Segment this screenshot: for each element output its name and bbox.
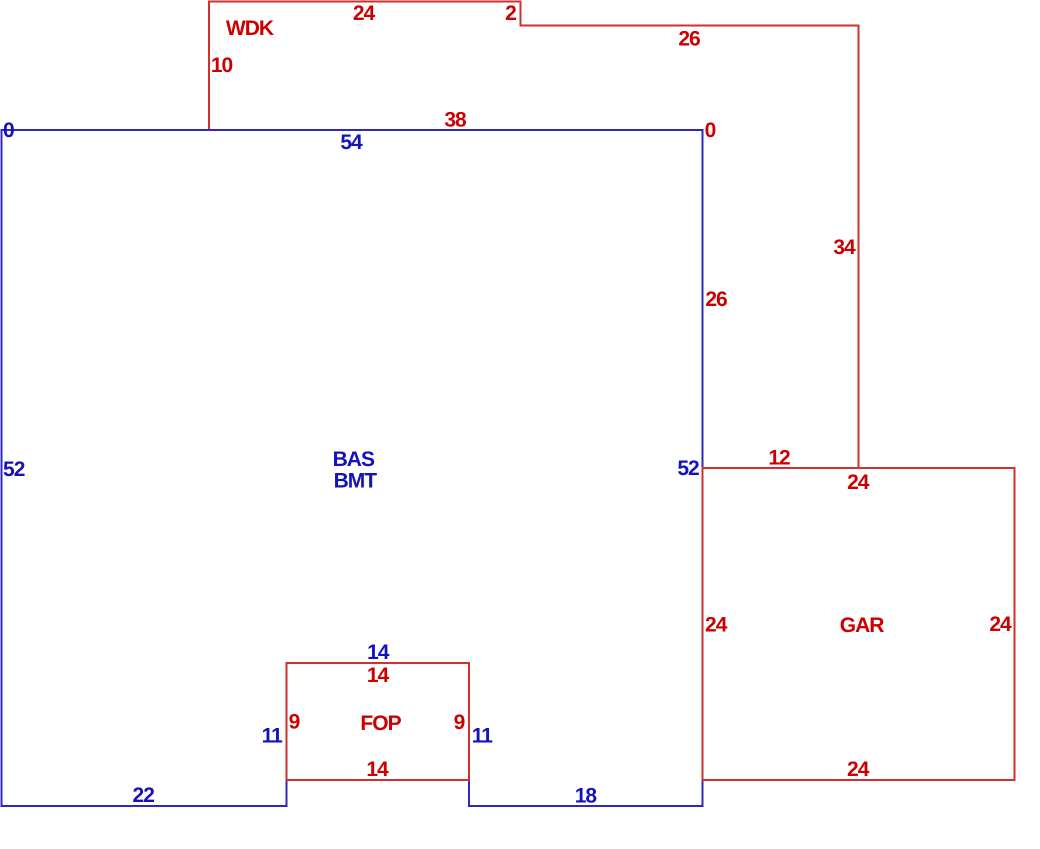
svg-text:52: 52 [677, 457, 699, 480]
svg-text:26: 26 [705, 288, 727, 311]
svg-text:BMT: BMT [334, 470, 378, 493]
svg-text:24: 24 [705, 613, 728, 636]
svg-text:9: 9 [454, 711, 466, 734]
svg-text:34: 34 [833, 236, 856, 259]
svg-text:24: 24 [847, 758, 870, 781]
area GAR rectangle outline (garage, red) [703, 468, 1015, 780]
area FOP rectangle outline (open porch, red) [287, 663, 470, 780]
svg-text:18: 18 [575, 785, 598, 808]
svg-text:11: 11 [262, 724, 284, 747]
svg-text:14: 14 [366, 758, 389, 781]
svg-text:24: 24 [847, 471, 870, 494]
svg-text:10: 10 [211, 54, 233, 77]
area BAS/BMT polygon outline (main dwelling, blue) [2, 130, 703, 806]
svg-text:14: 14 [367, 641, 390, 664]
area WDK polygon outline (wood deck, red) [209, 2, 859, 469]
svg-text:54: 54 [340, 131, 363, 154]
svg-text:9: 9 [289, 711, 301, 734]
svg-text:14: 14 [367, 664, 390, 687]
svg-text:12: 12 [768, 446, 790, 469]
svg-text:24: 24 [989, 613, 1012, 636]
svg-text:2: 2 [505, 2, 517, 25]
svg-text:22: 22 [133, 784, 155, 807]
svg-text:WDK: WDK [226, 17, 274, 40]
svg-text:11: 11 [472, 725, 494, 748]
svg-text:FOP: FOP [360, 712, 401, 735]
svg-text:38: 38 [444, 109, 467, 132]
svg-text:BAS: BAS [333, 448, 375, 471]
svg-text:0: 0 [3, 119, 15, 142]
svg-text:0: 0 [705, 119, 717, 142]
svg-text:24: 24 [353, 2, 376, 25]
svg-text:52: 52 [3, 458, 25, 481]
svg-text:GAR: GAR [840, 614, 885, 637]
svg-text:26: 26 [678, 27, 700, 50]
